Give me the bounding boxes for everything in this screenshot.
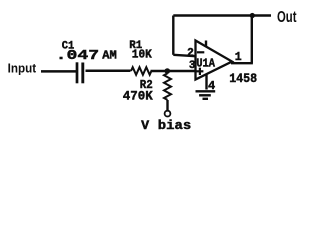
svg-text:1: 1: [235, 51, 242, 64]
svg-text:.047: .047: [56, 49, 100, 64]
svg-text:4: 4: [208, 79, 215, 93]
svg-text:Input: Input: [8, 61, 37, 76]
svg-text:bias: bias: [158, 119, 192, 133]
svg-text:1458: 1458: [229, 71, 257, 86]
svg-text:V: V: [141, 119, 150, 133]
svg-text:3: 3: [189, 60, 196, 72]
svg-text:470K: 470K: [123, 89, 153, 104]
svg-text:U1A: U1A: [196, 57, 215, 71]
svg-text:10K: 10K: [132, 49, 152, 62]
svg-text:AM: AM: [102, 49, 117, 63]
svg-text:2: 2: [187, 47, 194, 60]
svg-text:Out: Out: [277, 9, 297, 26]
